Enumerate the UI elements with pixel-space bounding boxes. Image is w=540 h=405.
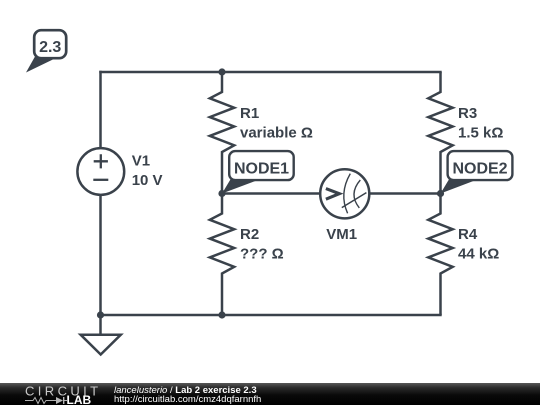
resistor R3: [428, 72, 452, 194]
CircuitLab logo: [0, 383, 110, 405]
junction dot NODE2: [437, 190, 444, 197]
ground stem wire: [99, 315, 102, 335]
svg-text:R444 kΩ: R444 kΩ: [458, 226, 499, 262]
svg-text:VM1: VM1: [326, 226, 357, 243]
V1 minus sign: [93, 179, 108, 181]
VM1 meter arc right: [354, 180, 360, 208]
svg-text:2.3: 2.3: [39, 39, 61, 56]
VM1 probe chevron: [326, 189, 339, 200]
resistor R4: [428, 194, 452, 316]
junction dot NODE1: [218, 190, 225, 197]
wire top horizontal: [99, 71, 441, 74]
wire bottom horizontal: [99, 314, 441, 317]
junction dot top of middle branch: [218, 68, 225, 75]
wire left vertical upper: [99, 71, 102, 148]
VM1 meter arc left: [344, 174, 351, 214]
wire node1 to VM1: [222, 192, 320, 195]
wire VM1 to node2: [369, 192, 440, 195]
node NODE2 box: [448, 151, 513, 180]
footer bar: [0, 383, 540, 405]
svg-text:R2??? Ω: R2??? Ω: [240, 226, 284, 262]
svg-text:R31.5 kΩ: R31.5 kΩ: [458, 105, 503, 141]
voltmeter VM1 circle: [320, 169, 369, 218]
ground symbol: [81, 335, 121, 355]
resistor R2: [210, 194, 234, 316]
wire left vertical lower: [99, 195, 102, 315]
node NODE2 tail: [441, 179, 481, 194]
junction dot bottom of middle branch: [218, 311, 225, 318]
voltage source V1 circle: [77, 148, 124, 195]
annotation callout 2.3 tail: [26, 57, 57, 73]
node NODE1 box: [229, 151, 294, 180]
svg-text:NODE2: NODE2: [452, 160, 507, 177]
svg-text:NODE1: NODE1: [234, 160, 289, 177]
footer url line: [114, 395, 261, 405]
resistor R1: [210, 72, 234, 194]
VM1 needle: [342, 193, 367, 208]
svg-text:V110 V: V110 V: [132, 153, 163, 190]
node NODE1 tail: [222, 179, 262, 194]
annotation callout 2.3 box: [34, 30, 66, 58]
svg-text:R1variable Ω: R1variable Ω: [240, 105, 313, 141]
V1 plus sign: [94, 154, 108, 168]
svg-text:LAB: LAB: [67, 393, 92, 405]
footer title line: [114, 386, 257, 396]
junction dot ground: [97, 311, 104, 318]
